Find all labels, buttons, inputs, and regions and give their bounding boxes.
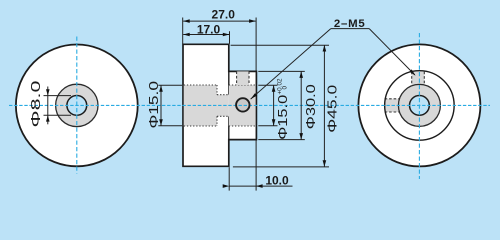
counterbore bottom edges at body/boss junction	[228, 71, 230, 95]
Φ15.0 dim (left of middle view): ext lines	[158, 84, 182, 86]
svg-text:Φ15.0: Φ15.0	[276, 95, 290, 140]
vertical centerline left view	[76, 37, 78, 174]
Φ30.0 arrows	[299, 71, 303, 78]
bore hole Φ8 (right view)	[410, 96, 430, 116]
svg-text:Φ8.0: Φ8.0	[29, 80, 43, 127]
svg-text:10.0: 10.0	[265, 174, 289, 188]
Φ8.0 dim (left view): ext lines	[44, 95, 72, 97]
boss circle Φ30 fill	[385, 71, 455, 140]
bore cavity Φ15 right counterbore (gray)	[229, 85, 256, 126]
Φ15.0+tol ext lines (right of middle view)	[258, 84, 277, 86]
counterbore ring Φ15 (left view)	[56, 84, 98, 126]
svg-text:17.0: 17.0	[197, 23, 221, 37]
tapped hole M5 left (right view)	[385, 99, 400, 112]
svg-text:2–M5: 2–M5	[334, 18, 366, 30]
set screw hole ring (side view of radial M5)	[236, 98, 249, 111]
part silhouette (section view)	[183, 44, 256, 166]
counterbore ring Φ15 (right view)	[398, 84, 440, 126]
2-M5 leader underline	[331, 28, 369, 30]
Φ45.0 ext lines	[231, 44, 329, 46]
svg-text:Φ45.0: Φ45.0	[326, 85, 340, 133]
left leader arrowhead	[251, 93, 258, 99]
10.0 ext lines	[228, 167, 230, 190]
boss circle Φ30 outline	[385, 71, 455, 140]
Φ30.0 ext lines	[258, 70, 305, 72]
27.0 ext lines	[182, 18, 184, 44]
disc outer circle Φ45 (left view)	[16, 45, 138, 167]
Φ15.0+tol arrows	[272, 85, 276, 92]
Φ15.0 dim line	[160, 85, 162, 125]
bore cavity Φ8 web hole (gray)	[217, 95, 229, 117]
Φ45.0 dim line	[323, 45, 325, 167]
bore cavity Φ15 left counterbore (gray)	[184, 85, 217, 126]
27.0 arrows	[183, 19, 190, 23]
Φ8.0 dim line	[47, 87, 49, 125]
vertical centerline right view	[418, 33, 420, 179]
27.0 dim line	[183, 20, 255, 22]
Φ15.0 left arrows (inside, pointing out)	[159, 85, 163, 92]
Φ30.0 dim line	[300, 71, 302, 139]
svg-text:Φ30.0: Φ30.0	[304, 84, 318, 129]
dotted bore profile lines	[184, 85, 256, 126]
arrowheads	[46, 19, 416, 188]
right leader arrowhead	[409, 69, 415, 75]
tapped hole M5 (section, top of boss)	[237, 71, 249, 85]
Φ15.0+tol dim line	[273, 85, 275, 125]
17.0 dim line	[183, 34, 229, 36]
10.0 arrows (outside, pointing in)	[223, 184, 230, 188]
Φ45.0 arrows	[323, 45, 327, 52]
tapped hole M5 top (right view)	[412, 72, 425, 85]
horizontal centerline (all views)	[9, 104, 490, 106]
17.0 arrows	[183, 33, 190, 37]
svg-text:Φ15.0: Φ15.0	[147, 81, 161, 129]
svg-text:0: 0	[282, 86, 289, 90]
Φ8.0 arrows (outside, pointing in)	[46, 89, 50, 95]
svg-text:27.0: 27.0	[212, 8, 236, 22]
set screw hole fill (side view of radial M5)	[236, 98, 249, 111]
disc outer circle Φ45 (right view)	[358, 44, 480, 166]
tolerance +0.02/0 (rotated, small)	[276, 78, 288, 95]
2-M5 left leader	[251, 29, 331, 100]
2-M5 right leader	[369, 29, 415, 75]
10.0 dim line	[229, 185, 292, 187]
bore hole Φ8 (left view)	[67, 96, 87, 116]
